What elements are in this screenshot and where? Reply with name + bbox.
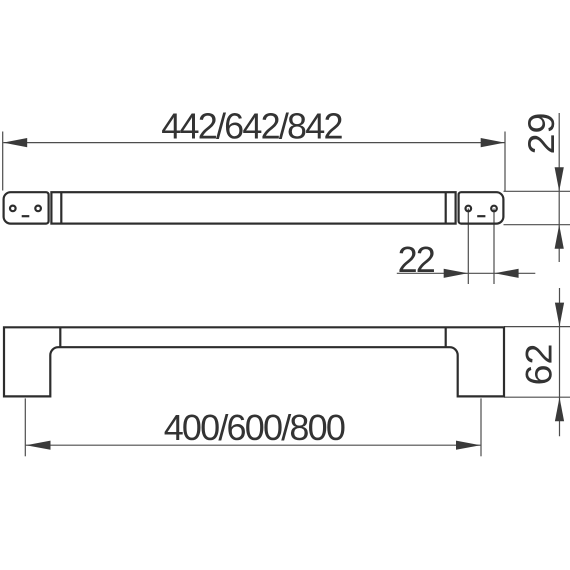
svg-text:400/600/800: 400/600/800 [164,407,345,448]
svg-text:22: 22 [398,239,435,280]
svg-text:62: 62 [518,344,560,386]
svg-text:442/642/842: 442/642/842 [161,105,342,146]
svg-text:29: 29 [520,113,562,155]
